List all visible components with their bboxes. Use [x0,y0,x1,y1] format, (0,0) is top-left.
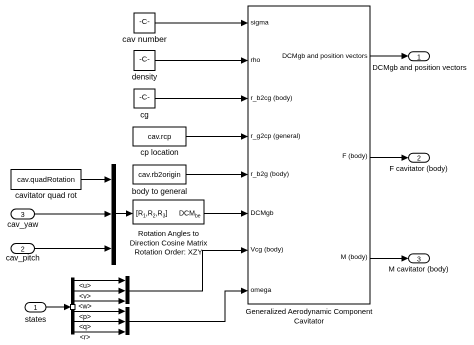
svg-text:M (body): M (body) [341,254,368,261]
inport 3 cav_yaw [7,209,38,229]
outport 2 F cavitator (body) [389,153,448,173]
svg-text:F cavitator (body): F cavitator (body) [389,164,448,173]
svg-text:-C-: -C- [139,55,150,64]
svg-text:M cavitator (body): M cavitator (body) [388,265,449,274]
svg-text:DCMgb and position vectors: DCMgb and position vectors [372,63,466,72]
demux D1 [70,278,75,335]
svg-text:cavitator quad rot: cavitator quad rot [15,191,78,200]
wire q [75,318,126,331]
wire cav.rcp to r_g2cp [186,133,248,139]
svg-text:2: 2 [417,156,421,163]
wire cav_pitch to mux [35,245,112,251]
mux M3 (omega) [126,307,130,335]
wire cav_yaw to mux [35,211,112,217]
svg-text:Vcg (body): Vcg (body) [251,247,284,254]
svg-text:<u>: <u> [79,283,91,290]
svg-text:2: 2 [21,247,25,254]
svg-text:Rotation Order: XZY: Rotation Order: XZY [135,248,203,257]
svg-text:cg: cg [140,111,148,120]
svg-text:density: density [132,72,157,81]
wire states to demux [46,304,71,310]
wire mux to DCM block [116,210,133,216]
wire mux M3 to omega [130,288,249,322]
svg-text:<w>: <w> [78,304,91,311]
svg-text:body to general: body to general [132,187,187,196]
svg-text:sigma: sigma [251,19,269,26]
inport 1 states [25,303,46,324]
wire r [75,329,126,342]
constant block cg [134,89,155,120]
svg-text:r_b2cg (body): r_b2cg (body) [251,95,293,102]
wire DCM block to DCMgb [204,210,248,216]
svg-text:1: 1 [34,305,38,312]
block cav.rcp (cp location) [133,127,186,157]
mux M1 (rotation angles) [112,164,117,265]
wire u [75,277,126,290]
svg-text:<r>: <r> [80,334,91,341]
wire v [75,288,126,301]
svg-text:-C-: -C- [139,17,150,26]
svg-text:DCMgb: DCMgb [251,210,274,217]
svg-text:Cavitator: Cavitator [294,316,325,325]
svg-text:1: 1 [417,54,421,61]
svg-text:cav_yaw: cav_yaw [7,220,38,229]
svg-text:states: states [25,315,46,324]
wire M (body) out [370,255,409,261]
svg-text:rho: rho [251,57,261,64]
wire cav.rb2origin to r_b2g [186,171,248,177]
svg-text:cp location: cp location [140,148,178,157]
subsystem Generalized Aerodynamic Component Cavitator [246,6,374,325]
svg-text:r_g2cp (general): r_g2cp (general) [251,133,301,140]
outport 1 DCMgb and position vectors [372,52,466,72]
block cav.rb2origin (body to general) [132,165,187,196]
svg-text:omega: omega [251,287,272,294]
svg-text:-C-: -C- [139,93,150,102]
wire mux M2 to Vcg [130,247,249,291]
constant block cav number [122,13,167,44]
svg-text:F (body): F (body) [342,153,367,160]
block cav.quadRotation (cavitator quad rot) [11,170,81,201]
svg-text:3: 3 [21,212,25,219]
block rotation angles to DCM [130,200,208,257]
svg-text:r_b2g (body): r_b2g (body) [251,171,290,178]
wire DCMgb and position vectors out [370,53,409,59]
svg-text:DCMgb and position vectors: DCMgb and position vectors [282,53,368,60]
svg-text:<p>: <p> [79,314,91,321]
svg-text:cav number: cav number [122,34,167,44]
wire density to rho [155,57,248,63]
wire cav number to sigma [155,20,248,26]
outport 3 M cavitator (body) [388,254,449,274]
mux M2 (Vcg) [126,276,130,304]
wire w [75,298,126,311]
wire p [75,308,126,321]
wire cav.quadRotation to mux [81,176,112,182]
inport 2 cav_pitch [6,244,40,263]
svg-text:Direction Cosine Matrix: Direction Cosine Matrix [130,238,208,247]
svg-text:<q>: <q> [79,324,91,331]
svg-text:3: 3 [417,256,421,263]
svg-text:<v>: <v> [79,293,91,300]
wire cg to r_b2cg [155,95,248,101]
svg-text:cav.rcp: cav.rcp [148,132,172,141]
wire F (body) out [370,155,409,161]
constant block density [132,51,157,82]
svg-text:cav.rb2origin: cav.rb2origin [138,170,180,179]
svg-text:cav_pitch: cav_pitch [6,254,40,263]
svg-text:Generalized Aerodynamic Compon: Generalized Aerodynamic Component [246,307,374,316]
svg-text:cav.quadRotation: cav.quadRotation [17,175,75,184]
svg-text:Rotation Angles to: Rotation Angles to [138,229,199,238]
